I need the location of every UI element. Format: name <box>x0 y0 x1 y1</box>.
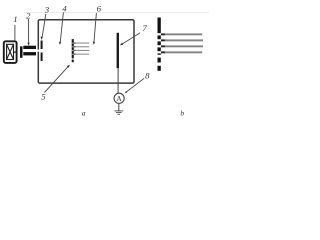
svg-text:6: 6 <box>97 4 102 14</box>
svg-text:7: 7 <box>142 23 147 33</box>
aperture gap in chamber left wall <box>37 50 40 52</box>
svg-text:8: 8 <box>145 71 150 81</box>
svg-text:1: 1 <box>13 14 17 24</box>
wire from plate 7 to ammeter <box>117 68 119 93</box>
grating 5 notches <box>72 43 74 55</box>
grating 5 (dashed vertical bar) <box>72 39 74 62</box>
detector plate 7 <box>117 33 119 68</box>
grating 5 teeth (4 horizontal lines) <box>74 42 90 54</box>
svg-text:3: 3 <box>44 4 50 14</box>
leader arrow 8 <box>125 78 145 93</box>
leader arrow 6 <box>93 13 97 45</box>
svg-text:b: b <box>180 109 184 118</box>
part b bar (dashed vertical, enlarged grating) <box>158 18 161 71</box>
vacuum chamber 4 (rectangle) <box>38 20 134 83</box>
svg-text:4: 4 <box>62 4 67 14</box>
leader arrow 5 <box>44 65 70 93</box>
ammeter 8 (circle) <box>114 93 124 103</box>
faint scan artifact line <box>24 11 209 14</box>
slit 3 (lower segment) <box>41 53 43 62</box>
leader arrow 4 <box>59 12 63 45</box>
oven box 1 inner rect with X <box>7 44 14 59</box>
leader arrow 2 <box>27 19 29 46</box>
svg-text:5: 5 <box>41 92 46 102</box>
collimator plate pair 2 (top plate) <box>23 46 36 49</box>
collimator plate pair 2 (bottom plate) <box>23 52 36 55</box>
nozzle slit bar <box>20 46 23 57</box>
leader line 1 <box>14 25 16 41</box>
beam exit tick inside oven <box>14 52 17 53</box>
leader arrow 7 <box>120 33 140 46</box>
wire from ammeter to ground <box>118 103 120 111</box>
ground symbol <box>114 111 123 114</box>
svg-text:A: A <box>116 94 122 103</box>
slit 3 (upper segment) <box>41 41 43 50</box>
oven box 1 (outer) <box>4 41 17 63</box>
svg-text:a: a <box>82 109 86 118</box>
part b beam traces (4 horizontal lines) <box>161 33 203 53</box>
leader arrow 3 <box>41 14 46 40</box>
